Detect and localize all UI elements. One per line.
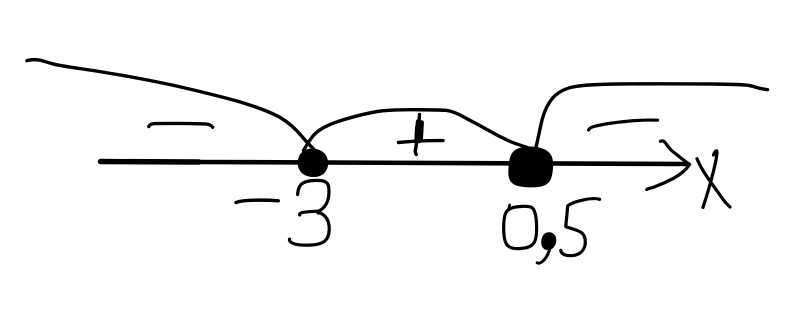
label: digit 3 of -3, bottom bowl — [289, 213, 329, 246]
label: letter x on axis, first stroke — [703, 151, 717, 208]
label: comma of 0,5 (tail) — [537, 248, 550, 264]
label: arrow head lower stroke — [647, 165, 690, 190]
node: point at -3 (filled blob) — [299, 150, 326, 176]
wire: middle arc between -3 and 0.5 — [304, 110, 534, 151]
label: plus sign (middle region), vertical scribbled stroke — [415, 115, 419, 155]
label: digit 0 of 0,5 — [504, 206, 537, 248]
label: digit 3 of -3, junction dot — [316, 209, 321, 214]
node: point at 0.5 (filled blob) — [510, 148, 552, 186]
wire: right rising curve — [535, 84, 768, 151]
label: "-" of -3 below axis — [236, 200, 278, 202]
label: digit 3 of -3, middle nub — [300, 211, 317, 215]
label: digit 3 of -3, top loop — [298, 180, 329, 211]
label: letter x on axis, second stroke — [697, 159, 730, 207]
label: digit 0 of 0,5, top-left tick — [508, 205, 511, 208]
wire: number line axis — [101, 159, 200, 165]
label: comma of 0,5 (filled head) — [542, 234, 555, 249]
label: digit 5 of 0,5 — [561, 199, 600, 256]
wire: left descending curve — [27, 60, 315, 150]
label: minus sign (left region) — [149, 123, 213, 127]
label: arrow head upper stroke — [661, 141, 690, 164]
label: plus sign (middle region), horizontal stroke — [399, 141, 444, 143]
label: minus sign (right region) — [589, 120, 658, 130]
